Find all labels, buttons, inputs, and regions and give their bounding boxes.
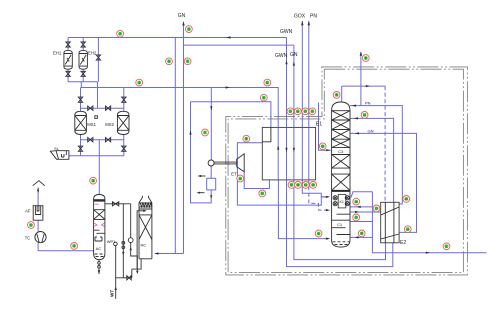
ET shaft bbox=[214, 162, 237, 164]
valve above EH2 bbox=[81, 42, 85, 47]
svg-text:3: 3 bbox=[92, 179, 94, 183]
node 14 bbox=[287, 108, 294, 115]
svg-text:5: 5 bbox=[188, 27, 190, 31]
ET box left arrows bbox=[200, 175, 206, 177]
ET turbine wheel bbox=[237, 154, 245, 172]
valve above EH1 bbox=[66, 42, 70, 47]
svg-text:C3: C3 bbox=[338, 149, 344, 154]
svg-text:E2: E2 bbox=[400, 240, 406, 246]
node 6 bbox=[166, 58, 173, 65]
valve below MS1 bbox=[78, 146, 82, 151]
wire GWN riser through E1 bbox=[286, 38, 288, 180]
valve on water line bbox=[127, 276, 131, 280]
crossover valve right on y=139.2 bbox=[106, 138, 111, 142]
valve below EH2 bbox=[81, 71, 85, 76]
wire NC feed 2 vertical bbox=[183, 45, 185, 253]
node 15 bbox=[294, 108, 301, 115]
AC top outlet with twin valves bbox=[105, 204, 131, 238]
arrow GWN riser up bbox=[285, 60, 287, 64]
node 2b on TC-AC line bbox=[71, 243, 78, 250]
svg-text:8: 8 bbox=[336, 93, 338, 97]
wire air2 through E1 bbox=[270, 142, 272, 180]
intake arrow bbox=[37, 190, 39, 194]
arrow into K1 left upper bbox=[326, 196, 330, 198]
wire AF to TC bbox=[37, 220, 39, 231]
cold box boundary inner dash-dot line bbox=[228, 69, 463, 272]
svg-text:NC: NC bbox=[141, 243, 147, 248]
svg-text:9: 9 bbox=[291, 183, 293, 187]
AC drain circles and arrow bbox=[98, 260, 100, 274]
node 11 bbox=[243, 135, 250, 142]
wire K1 top to exit line bbox=[351, 192, 372, 198]
svg-text:GN: GN bbox=[290, 52, 298, 58]
wire EH1 legs bbox=[67, 38, 69, 82]
wire vent riser with cold box crossing bbox=[360, 52, 362, 106]
arrow vent stack up bbox=[360, 51, 362, 56]
wire GN riser through E1 bbox=[293, 45, 295, 180]
wire GN U-loop under column bbox=[294, 180, 386, 260]
node 12 bbox=[237, 175, 244, 182]
node 5 bbox=[186, 26, 193, 33]
svg-text:1: 1 bbox=[30, 223, 32, 227]
wire column bottoms right bbox=[350, 236, 372, 238]
node 4 bbox=[136, 79, 143, 86]
wire GWN U-loop under column bbox=[287, 180, 393, 267]
crossover valve left on y=107.7 bbox=[88, 106, 93, 110]
node 32 bbox=[404, 226, 411, 233]
cold box boundary outer dash-dot line bbox=[226, 67, 468, 275]
arrow E1 inside down 2 bbox=[293, 148, 295, 152]
wire column top line to dome bbox=[342, 86, 386, 102]
condenser K1 black band bbox=[332, 191, 350, 192]
svg-text:AC: AC bbox=[96, 246, 102, 251]
arrow PN up bbox=[308, 21, 310, 26]
svg-text:WP1: WP1 bbox=[107, 239, 116, 244]
wire MS2 top leg bbox=[123, 88, 125, 112]
ET below-box down arrow bbox=[210, 195, 212, 199]
wire EH to MS connector bbox=[80, 82, 82, 88]
svg-text:7: 7 bbox=[187, 60, 189, 64]
wire GOX below E1 to K1 bbox=[302, 180, 328, 197]
node 30 bbox=[315, 230, 322, 237]
svg-text:MS1: MS1 bbox=[87, 122, 96, 127]
wire EH2 legs bbox=[82, 38, 84, 82]
node 22 bbox=[362, 55, 369, 62]
node 31 bbox=[403, 196, 410, 203]
node 13 bbox=[259, 190, 266, 197]
arrow into K1 left lower bbox=[326, 209, 330, 211]
node 9 bbox=[260, 94, 267, 101]
NC internal inlet arrow bbox=[137, 209, 152, 269]
svg-text:4: 4 bbox=[263, 96, 265, 100]
BALLOONS bbox=[28, 26, 450, 250]
subcooler E2 bbox=[381, 202, 399, 243]
svg-text:AF: AF bbox=[25, 208, 31, 213]
condenser K1 bbox=[338, 195, 346, 208]
ET generator box bbox=[207, 178, 216, 190]
svg-text:EH1: EH1 bbox=[53, 50, 62, 55]
arrow into column upper bbox=[354, 117, 358, 119]
air cooler AC bbox=[94, 195, 105, 260]
wire MS1 top leg bbox=[80, 88, 82, 112]
wire E1 to C1 bottom feed bbox=[278, 180, 328, 239]
wire GOX riser through E1 bbox=[301, 21, 303, 180]
arrow K1 to E2 right bbox=[355, 211, 359, 213]
svg-text:K1: K1 bbox=[340, 200, 344, 204]
node 23 bbox=[333, 92, 340, 99]
adsorber MS2 bbox=[117, 111, 129, 134]
pump WP1 bbox=[114, 242, 118, 246]
valve below MS2 bbox=[122, 146, 126, 151]
svg-text:E1: E1 bbox=[316, 122, 322, 128]
expansion turbine ET circle bbox=[208, 160, 214, 166]
wire ET feed from header bbox=[210, 88, 212, 161]
wire GN to column mid / E2 right bbox=[350, 133, 417, 232]
wire reflux to column upper bbox=[350, 118, 394, 202]
wire column right stub bbox=[350, 221, 372, 223]
node 20 bbox=[302, 182, 309, 189]
node 24 bbox=[361, 112, 368, 119]
valve below EH1 bbox=[66, 71, 70, 76]
wire MS bottom header to silencer bbox=[69, 155, 124, 157]
heater EH2 bbox=[79, 50, 87, 69]
svg-text:C1: C1 bbox=[337, 222, 343, 227]
arrow column top line right bbox=[366, 85, 370, 87]
arrow ET feed down bbox=[210, 106, 212, 110]
wire ET discharge riser to E1 bbox=[191, 102, 212, 203]
valve above MS1 bbox=[78, 97, 82, 102]
wire NC feed 1 vertical bbox=[174, 38, 176, 255]
magenta spray nozzles bbox=[94, 223, 105, 227]
WP2 discharge zigzag bbox=[131, 243, 141, 278]
svg-text:5: 5 bbox=[266, 81, 268, 85]
arrow into NC right bbox=[154, 252, 158, 254]
wire EH bypass branch bbox=[97, 38, 99, 82]
arrow ET riser up bbox=[189, 130, 191, 134]
silencer SL bbox=[50, 151, 69, 160]
svg-text:PN: PN bbox=[365, 101, 371, 106]
arrow into column right return bbox=[357, 206, 361, 208]
valve above MS2 bbox=[122, 97, 126, 102]
wire E1 left nozzle to ET area bbox=[237, 143, 326, 205]
node 17 bbox=[309, 108, 316, 115]
small drain square between MS bbox=[95, 116, 98, 119]
wire air line through E1 x=277.7 bbox=[277, 127, 279, 179]
svg-text:8: 8 bbox=[361, 232, 363, 236]
arrow exit line right bbox=[426, 252, 430, 254]
heater EH1 bbox=[64, 50, 72, 69]
arrow into column top bbox=[352, 105, 356, 107]
nitrogen water cooler NC bbox=[139, 196, 152, 259]
svg-text:ET: ET bbox=[231, 171, 237, 176]
arrow GN vent up bbox=[182, 21, 184, 26]
svg-text:GN: GN bbox=[178, 13, 186, 19]
arrow GOX up bbox=[301, 21, 303, 26]
wire K1 vapor to E2 left bbox=[350, 211, 381, 213]
trays in C1 bottom bbox=[332, 214, 350, 234]
wire LOX exit line through cold box bbox=[372, 192, 486, 253]
water line WT bbox=[116, 246, 132, 299]
wire TC to AC bbox=[38, 243, 94, 251]
arrow E1 inside up bbox=[277, 145, 279, 149]
svg-text:2: 2 bbox=[119, 32, 121, 36]
wire NC inlet horizontal bbox=[155, 253, 184, 255]
pump WP2 bbox=[128, 238, 133, 243]
liquid level dashes bbox=[333, 242, 350, 245]
crossover valve right on y=107.7 bbox=[106, 106, 111, 110]
arrow air header right bbox=[226, 86, 231, 88]
adsorber MS1 bbox=[75, 111, 87, 134]
svg-text:TC: TC bbox=[25, 236, 31, 241]
svg-text:SL: SL bbox=[54, 147, 59, 151]
svg-text:6: 6 bbox=[168, 60, 170, 64]
column C1/C3 shell bbox=[332, 102, 350, 247]
node 10 bbox=[202, 129, 209, 136]
svg-text:GWN: GWN bbox=[280, 29, 293, 35]
wire GN vent riser bbox=[183, 25, 185, 46]
svg-text:2: 2 bbox=[73, 244, 75, 248]
valve on EH bypass bbox=[96, 55, 100, 60]
wire AC riser to MS bbox=[98, 140, 100, 195]
air intake chevron bbox=[33, 181, 45, 186]
wire MS crossover top valve line bbox=[81, 82, 124, 108]
svg-text:4: 4 bbox=[138, 81, 140, 85]
air filter AF bbox=[33, 206, 43, 221]
node 8 bbox=[264, 79, 271, 86]
wire intake to AF bbox=[37, 193, 39, 206]
node 7 bbox=[184, 58, 191, 65]
node 2 bbox=[117, 30, 124, 37]
svg-text:GN: GN bbox=[368, 128, 374, 133]
wire MS header to E1 y=87 bbox=[81, 88, 279, 128]
svg-text:PN: PN bbox=[310, 14, 317, 20]
wire air2 to E1 top bbox=[191, 102, 271, 128]
node 26 bbox=[353, 198, 360, 205]
arrow into C1 bottom bbox=[326, 238, 330, 240]
svg-text:6: 6 bbox=[318, 232, 320, 236]
wire MS bottom crossover line bbox=[81, 135, 124, 156]
branch line with small check valves bbox=[122, 204, 124, 278]
arrow GN riser up bbox=[293, 61, 295, 65]
node 3 bbox=[90, 177, 97, 184]
crossover valve left on y=139.2 bbox=[88, 138, 93, 142]
wire EH bottom header bbox=[68, 81, 97, 83]
turbo compressor TC bbox=[35, 232, 46, 243]
svg-text:WT: WT bbox=[110, 290, 115, 297]
node 16 bbox=[302, 108, 309, 115]
node 1 bbox=[28, 222, 35, 229]
svg-text:GOX: GOX bbox=[294, 14, 306, 20]
node 27 bbox=[373, 205, 380, 212]
node 19 bbox=[295, 182, 302, 189]
wire GN regeneration header y=44.6 bbox=[184, 44, 294, 46]
node 29 bbox=[358, 230, 365, 237]
svg-text:8: 8 bbox=[365, 56, 367, 60]
wire PN riser through E1 bbox=[308, 21, 310, 180]
node 18 bbox=[288, 182, 295, 189]
arrow E1 inside down 1 bbox=[285, 148, 287, 152]
node 25 bbox=[319, 143, 326, 150]
wire turbine outlet bbox=[244, 172, 269, 189]
wire column right return bbox=[350, 206, 372, 208]
arrow into column bottoms bbox=[355, 236, 359, 238]
wire PN to column top section bbox=[350, 106, 402, 204]
wire column left inlet bbox=[319, 103, 331, 151]
svg-text:GWN: GWN bbox=[275, 53, 288, 59]
arrow into column mid bbox=[355, 132, 359, 134]
node 28 bbox=[353, 214, 360, 221]
node 33 bbox=[443, 243, 450, 250]
wire EH top regeneration header y=37 bbox=[68, 37, 286, 39]
svg-text:MS2: MS2 bbox=[105, 122, 114, 127]
node 21 bbox=[310, 182, 317, 189]
arrow regen header left bbox=[226, 36, 231, 38]
wire PN below E1 to K1 dashed bbox=[309, 180, 329, 210]
arrow into column left c3 bbox=[326, 149, 330, 151]
heat exchanger E1 bbox=[262, 127, 315, 179]
svg-text:7: 7 bbox=[204, 131, 206, 135]
svg-text:5: 5 bbox=[245, 137, 247, 141]
wire LIN dashed line to E2 bbox=[384, 86, 386, 202]
